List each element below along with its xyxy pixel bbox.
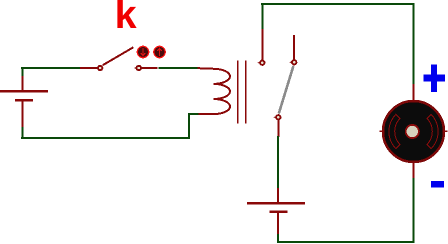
relay contact terminal bottom xyxy=(274,115,281,119)
wire left vertical bottom xyxy=(22,127,24,139)
wire battery to bottom xyxy=(277,234,279,243)
label minus xyxy=(431,181,444,187)
switch K terminal right xyxy=(134,66,141,70)
motor M axle tick right xyxy=(443,130,448,132)
wire left-top horizontal xyxy=(21,67,81,69)
wire switch to coil xyxy=(159,67,199,69)
battery B2 pin bottom xyxy=(277,212,279,236)
wire left vertical top xyxy=(22,67,24,77)
motor M axle tick left xyxy=(380,130,385,132)
relay contact lever xyxy=(279,66,294,114)
relay contact pin left xyxy=(261,29,263,60)
svg-text:k: k xyxy=(115,0,137,37)
wire bottom-right horizontal xyxy=(277,241,415,243)
battery B2 short plate xyxy=(270,210,288,213)
relay contact terminal right xyxy=(290,60,297,64)
wire top to motor vertical xyxy=(413,3,415,85)
switch K pin left xyxy=(80,67,97,69)
relay contact pin right floating xyxy=(293,35,295,60)
motor M brush left xyxy=(389,114,400,148)
wire right-top horizontal xyxy=(261,3,415,5)
switch K actuator button down xyxy=(137,46,148,57)
wire contact to battery xyxy=(277,136,279,189)
relay coil L1 loops xyxy=(198,68,231,114)
wire step horizontal to coil xyxy=(188,113,199,115)
label plus xyxy=(424,65,446,93)
battery B2 long plate xyxy=(247,202,305,205)
relay core line 2 xyxy=(245,61,247,124)
switch K pin right xyxy=(142,67,158,69)
motor M hub xyxy=(406,125,419,138)
switch K terminal left xyxy=(96,66,103,70)
motor M pin top xyxy=(413,84,415,101)
wire step vertical xyxy=(188,113,190,139)
motor M pin bottom xyxy=(413,163,415,178)
battery B1 long plate xyxy=(0,90,48,93)
wire right-circuit left vertical xyxy=(261,3,263,30)
switch K lever xyxy=(103,47,134,65)
relay core line 1 xyxy=(237,61,239,124)
wire bottom-left horizontal xyxy=(21,137,190,139)
battery B2 pin top xyxy=(277,188,279,203)
battery B1 short plate xyxy=(15,99,33,102)
battery B1 pin top xyxy=(22,76,24,91)
switch K actuator button up xyxy=(154,46,165,57)
relay contact terminal left xyxy=(258,61,265,65)
battery B1 pin bottom xyxy=(22,100,24,128)
motor M brush right xyxy=(427,114,438,148)
relay contact pin bottom xyxy=(277,120,279,137)
wire motor right vertical xyxy=(413,177,415,243)
motor M body xyxy=(383,101,444,162)
